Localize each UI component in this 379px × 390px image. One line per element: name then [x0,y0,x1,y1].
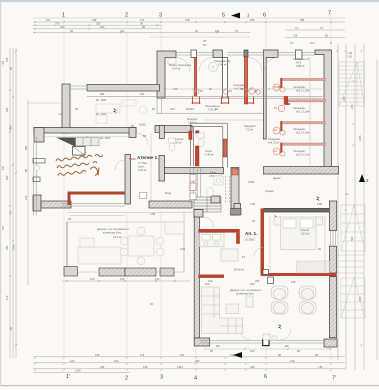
svg-text:Гардероб: Гардероб [244,124,256,128]
svg-text:270: 270 [5,295,9,300]
svg-text:Преддверие: Преддверие [205,104,220,108]
svg-text:6.20 м²: 6.20 м² [138,168,147,172]
svg-text:1105: 1105 [358,135,362,141]
svg-text:40.3: 40.3 [296,61,302,65]
svg-text:1.40 м²: 1.40 м² [205,153,214,157]
svg-text:6: 6 [264,374,267,380]
svg-text:1105: 1105 [12,244,16,250]
svg-text:162: 162 [114,359,119,363]
svg-text:Складова: Складова [293,149,305,153]
svg-text:250: 250 [250,18,255,22]
svg-text:Складова х.б: Складова х.б [293,57,309,61]
svg-text:Складова: Складова [268,137,280,141]
svg-text:448: 448 [92,18,97,22]
svg-text:210: 210 [120,29,125,33]
svg-text:325: 325 [96,22,101,26]
svg-text:210: 210 [170,107,175,111]
svg-text:680: 680 [9,125,13,130]
svg-text:345: 345 [5,107,9,112]
svg-text:( 85: ( 85 [318,365,323,369]
svg-text:15/60: 15/60 [248,180,255,184]
svg-text:356: 356 [300,18,305,22]
svg-text:4.97 м²: 4.97 м² [172,67,181,71]
svg-text:Дневна с кът за хранене и: Дневна с кът за хранене и [97,227,129,231]
svg-text:168: 168 [143,365,148,369]
svg-text:290: 290 [100,25,105,29]
svg-text:3.2 м²: 3.2 м² [246,128,253,132]
svg-text:47.75м²: 47.75м² [138,161,147,165]
svg-text:Складова: Складова [293,106,305,110]
svg-text:Щранг: Щранг [273,176,281,180]
svg-text:315: 315 [293,34,298,38]
svg-text:Ателие 1: Ателие 1 [137,155,158,160]
svg-text:2: 2 [125,376,128,382]
svg-text:365: 365 [24,145,28,150]
svg-text:15/60: 15/60 [274,85,281,89]
svg-text:Спалня: Спалня [300,228,310,232]
svg-text:10.30м2: 10.30м2 [245,238,255,242]
svg-text:225: 225 [95,353,100,357]
svg-text:115: 115 [140,353,145,357]
svg-text:Складова: Складова [293,85,305,89]
svg-text:165: 165 [291,280,296,284]
svg-text:2.85: 2.85 [317,202,323,206]
svg-text:590: 590 [5,175,9,180]
svg-text:Ап. 1.: Ап. 1. [245,231,257,236]
svg-text:110: 110 [215,29,220,33]
svg-text:105: 105 [5,57,9,62]
svg-text:Терasa: Терasa [265,189,274,193]
svg-text:23.3 м²: 23.3 м² [113,235,122,239]
svg-text:7: 7 [328,11,331,17]
svg-text:8.8: 8.8 [1,226,5,230]
svg-text:1461: 1461 [177,365,183,369]
svg-text:140: 140 [290,359,295,363]
svg-text:160: 160 [120,277,125,281]
svg-text:172: 172 [140,18,145,22]
svg-text:ED: ED [285,344,289,348]
svg-text:1.85 м²: 1.85 м² [188,121,197,125]
svg-text:873: 873 [180,353,185,357]
svg-text:ED: ED [216,344,220,348]
svg-text:Вс. 1905: Вс. 1905 [96,98,107,102]
svg-text:4: 4 [194,376,197,382]
svg-text:Борд: Борд [165,191,172,195]
svg-text:ВЗ: ВЗ [143,134,147,138]
svg-text:120: 120 [90,277,95,281]
svg-text:кухненски бокс: кухненски бокс [236,292,255,296]
svg-text:210: 210 [24,195,28,200]
svg-text:1 20: 1 20 [347,55,353,59]
svg-text:2.05: 2.05 [180,247,186,251]
svg-text:Складова: Складова [293,127,305,131]
svg-text:90/210: 90/210 [186,107,194,111]
svg-text:163: 163 [140,92,145,96]
svg-text:Складова №2: Складова №2 [214,59,231,63]
svg-text:265: 265 [195,359,200,363]
svg-text:240: 240 [250,365,255,369]
svg-text:140: 140 [155,277,160,281]
svg-text:15/60: 15/60 [139,123,146,127]
svg-text:№1.2 1.5м²: №1.2 1.5м² [296,110,309,114]
svg-text:1: 1 [62,13,65,19]
svg-text:590: 590 [350,236,354,241]
svg-text:Б-Г: Б-Г [203,43,208,47]
svg-text:3: 3 [160,375,163,381]
svg-text:5: 5 [222,13,225,19]
svg-text:30.42 м²: 30.42 м² [234,268,244,272]
svg-text:Comp: Comp [205,149,212,153]
svg-text:Баня: Баня [210,171,217,175]
svg-text:260: 260 [255,279,260,283]
svg-text:0.88 м²: 0.88 м² [296,64,305,68]
svg-text:Вс. 1905: Вс. 1905 [96,112,107,116]
svg-text:13.5 м²: 13.5 м² [301,232,310,236]
svg-text:6: 6 [263,13,266,19]
svg-text:дм: дм [203,40,207,43]
svg-text:1105: 1105 [75,369,81,373]
svg-text:№1.3 1.5м²: №1.3 1.5м² [296,131,309,135]
svg-text:№1.4 2.1м²: №1.4 2.1м² [296,153,309,157]
svg-text:370: 370 [55,22,60,26]
svg-text:Коридор: Коридор [187,117,198,121]
svg-text:42.7: 42.7 [310,41,316,45]
svg-text:215: 215 [350,104,354,109]
svg-text:748: 748 [185,18,190,22]
svg-text:110: 110 [46,18,51,22]
svg-text:Складова: Складова [233,83,245,87]
svg-text:8.8: 8.8 [1,166,5,170]
svg-text:№6 2.1м²: №6 2.1м² [268,141,279,145]
svg-text:445: 445 [100,365,105,369]
svg-text:7.05: 7.05 [1,60,5,66]
svg-text:1': 1' [66,374,70,380]
svg-text:4.55: 4.55 [150,212,156,216]
svg-text:7': 7' [332,376,336,382]
svg-text:120: 120 [70,359,75,363]
svg-text:345: 345 [5,245,9,250]
svg-text:2: 2 [125,13,128,19]
svg-text:4.05: 4.05 [250,202,256,206]
svg-text:100: 100 [208,279,213,283]
svg-text:п.п: п.п [345,193,349,196]
svg-text:кухненски бокс: кухненски бокс [103,231,122,235]
svg-text:3: 3 [159,13,162,19]
svg-text:Дневна с кът за хранене и: Дневна с кът за хранене и [230,288,262,292]
svg-text:п 42: п 42 [347,51,353,55]
svg-text:595: 595 [100,92,105,96]
svg-text:760: 760 [9,210,13,215]
svg-text:160: 160 [250,349,255,353]
svg-text:83/98: 83/98 [129,157,136,161]
svg-text:2.46 м²: 2.46 м² [218,63,227,67]
